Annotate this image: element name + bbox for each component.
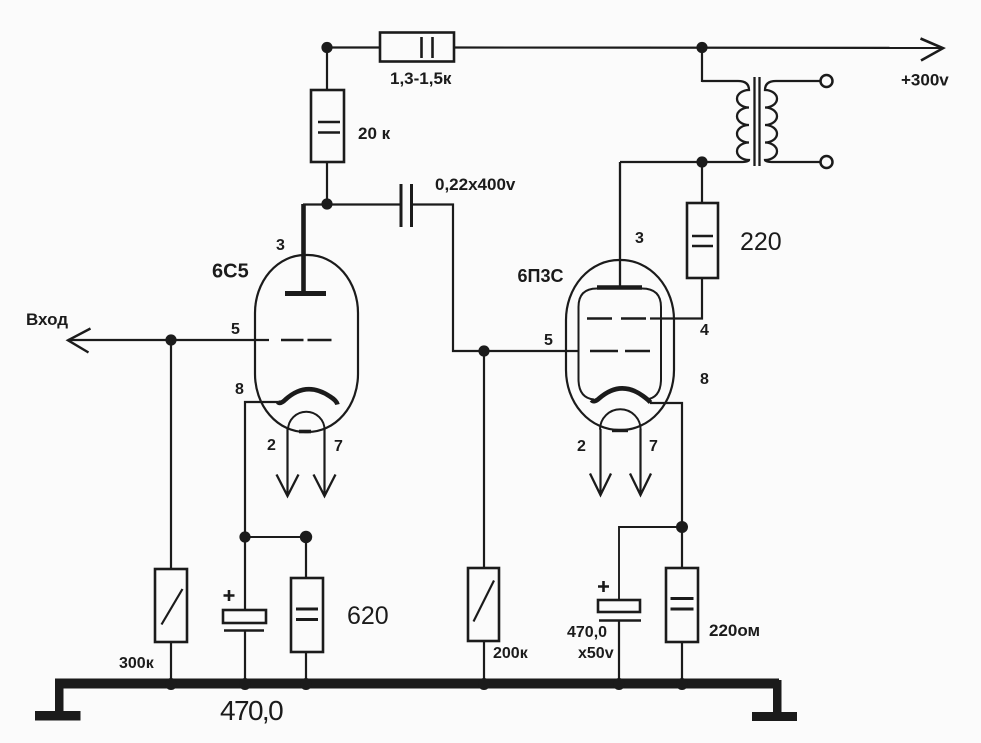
node E junction dot [239, 531, 250, 542]
wire node H to R7 [701, 162, 703, 203]
V1 grid dash 1 [281, 339, 304, 341]
wire C1 to node D [412, 205, 485, 352]
resistor R1 inner marks [420, 37, 423, 58]
R4 inner lines [296, 608, 318, 611]
svg-text:470,0: 470,0 [567, 624, 607, 641]
R6 inner lines [671, 597, 694, 600]
V2 control grid dash 2 [625, 350, 650, 352]
V1 heater lead pin 2 [286, 429, 288, 495]
svg-text:3: 3 [635, 230, 644, 247]
svg-text:220ом: 220ом [709, 621, 760, 640]
V2 control grid dash 1 [590, 350, 618, 352]
V2 dome bottom dash [612, 429, 628, 432]
svg-text:620: 620 [347, 602, 389, 630]
V1 cathode arc [278, 389, 338, 404]
R7 inner lines [692, 235, 713, 238]
V2 heater lead pin 7 [639, 429, 641, 494]
V1 heater arrow pin 7 [314, 475, 336, 497]
secondary terminal top [821, 75, 833, 87]
svg-text:5: 5 [231, 321, 240, 338]
R3 diagonal [162, 589, 183, 625]
capacitor C2 top plate [223, 610, 266, 623]
V2 heater arrow pin 2 [590, 474, 611, 496]
V2 anode lead [619, 162, 621, 286]
tube V2 envelope 6P3S [566, 260, 674, 430]
node C junction dot [321, 198, 332, 209]
tube V1 anode plate bar [285, 291, 326, 296]
node B junction dot [696, 42, 707, 53]
svg-text:4: 4 [700, 322, 709, 339]
ground symbol right [752, 712, 797, 721]
transformer T1 core [753, 77, 755, 166]
bus junction dots [165, 678, 177, 690]
V2 inner screen right [642, 289, 661, 400]
svg-text:2: 2 [267, 437, 276, 454]
wire node A to resistor R1 [322, 46, 380, 48]
resistor R1 body 1,3-1,5k [380, 33, 454, 62]
svg-text:220: 220 [740, 228, 782, 256]
svg-text:470,0: 470,0 [220, 695, 283, 726]
svg-text:2: 2 [577, 438, 586, 455]
svg-text:7: 7 [334, 438, 343, 455]
wire input node down to R3 [170, 340, 172, 569]
node G junction dot [676, 521, 688, 533]
V1 dome bottom dash [299, 430, 311, 434]
svg-text:300к: 300к [119, 655, 155, 672]
wire node D to V2 grid [484, 350, 579, 352]
V1 dome [288, 412, 325, 430]
wire node D down to R5 [483, 351, 485, 568]
svg-text:8: 8 [235, 381, 244, 398]
node F junction dot [300, 531, 312, 543]
V1 heater lead pin 7 [323, 429, 325, 495]
ground symbol left [35, 711, 81, 721]
capacitor C1 right plate [410, 184, 413, 227]
capacitor C1 left plate [400, 184, 403, 227]
svg-text:1,3-1,5к: 1,3-1,5к [390, 69, 452, 88]
V1 cathode wire to pin 8 [245, 402, 278, 537]
capacitor C3 bottom plate [599, 619, 641, 621]
wire R2 to node C [326, 162, 328, 204]
V2 heater arrow pin 7 [630, 474, 651, 496]
V2 screen grid dash 1 [587, 317, 612, 319]
input junction dot [165, 334, 176, 345]
wire node B down to transformer primary [701, 47, 703, 82]
resistor R4 body 620 [291, 578, 323, 652]
input arrowhead [68, 329, 91, 353]
wire node E to node F [245, 536, 306, 538]
+300v arrowhead [921, 39, 944, 61]
svg-text:Вход: Вход [26, 310, 68, 329]
ground bus [35, 678, 797, 721]
svg-text:+300v: +300v [901, 71, 949, 90]
wire V2 anode to node H [620, 161, 706, 163]
resistor R2 body 20k [311, 90, 344, 162]
svg-text:5: 5 [544, 332, 553, 349]
node H junction dot [696, 156, 707, 167]
V2 cathode wire pin 8 [650, 403, 682, 527]
svg-text:х50v: х50v [578, 645, 614, 662]
capacitor C2 bottom plate [224, 629, 264, 631]
node D junction dot [478, 345, 489, 356]
V2 pin 4 wire [650, 278, 702, 319]
V2 cathode arc [592, 388, 651, 402]
R5 diagonal [474, 581, 495, 622]
wire capacitor C3 top to node G [619, 527, 682, 600]
wire node E down to capacitor C2 [244, 537, 246, 610]
input wire [68, 339, 171, 341]
C3 plus sign [598, 581, 609, 592]
svg-text:8: 8 [700, 371, 709, 388]
resistor R3 body 300k [155, 569, 187, 642]
resistor R5 body 200k [468, 568, 499, 641]
node A junction dot [321, 42, 332, 53]
C2 plus sign [224, 590, 235, 601]
resistor R2 inner lines [318, 121, 340, 123]
wire R3 to bus [170, 642, 172, 683]
wire node C horizontal to capacitor C1 [303, 203, 401, 205]
transformer T1 secondary winding [765, 81, 820, 162]
capacitor C3 top plate [598, 600, 640, 612]
tube V1 anode lead thick [301, 204, 306, 291]
wire R6 to bus [681, 642, 683, 683]
transformer T1 primary winding [702, 81, 749, 162]
svg-text:3: 3 [276, 237, 285, 254]
V1 heater arrow pin 2 [277, 475, 299, 497]
wire R4 to bus [305, 652, 307, 683]
V2 screen grid dash 2 [621, 317, 646, 319]
svg-text:6С5: 6С5 [212, 261, 249, 283]
bus left drop [55, 679, 64, 715]
V2 inner screen left [579, 289, 598, 400]
bus right drop [773, 680, 782, 714]
secondary terminal bottom [821, 156, 833, 168]
svg-text:200к: 200к [493, 645, 529, 662]
resistor R6 body 220om [666, 568, 698, 642]
tube V1 envelope 6C5 [255, 255, 358, 432]
V1 grid dash 2 [308, 339, 332, 341]
V1 grid wire pin 5 [171, 339, 269, 341]
svg-text:7: 7 [649, 438, 658, 455]
wire C2 to bus [244, 632, 246, 684]
svg-text:0,22x400v: 0,22x400v [435, 175, 516, 194]
V2 heater lead pin 2 [599, 429, 601, 494]
wire node G down to R6 [681, 527, 683, 568]
resistor R7 body 220 [687, 203, 718, 278]
wire C3 to bus [618, 622, 620, 684]
wire R1 to +300v arrow [454, 46, 941, 49]
V2 dome [600, 409, 641, 429]
wire node A down to R2 [326, 47, 328, 90]
svg-text:6П3С: 6П3С [518, 266, 564, 286]
wire R5 to bus [483, 641, 485, 683]
V2 anode plate bar [597, 285, 642, 290]
wire node F down to R4 [305, 537, 307, 578]
svg-text:20 к: 20 к [358, 124, 391, 143]
